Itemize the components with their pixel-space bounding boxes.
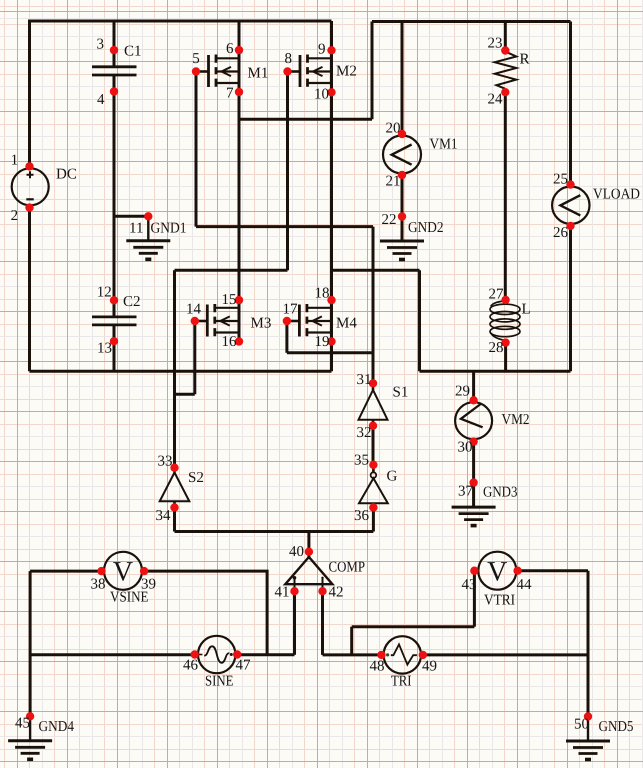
buffer S1 bbox=[359, 390, 388, 420]
svg-text:10: 10 bbox=[314, 86, 329, 102]
wire S2 feed vertical bbox=[173, 270, 176, 467]
wire right net riser bbox=[371, 22, 374, 120]
transistor M4 bbox=[287, 300, 332, 342]
wire R top from rail bbox=[504, 22, 507, 51]
svg-text:36: 36 bbox=[354, 508, 370, 524]
svg-text:9: 9 bbox=[318, 42, 326, 58]
wire COMP +in down bbox=[293, 591, 296, 655]
node pin 49 bbox=[419, 651, 427, 659]
node pin 36 bbox=[369, 503, 377, 511]
svg-text:5: 5 bbox=[192, 51, 200, 67]
node pin 26 bbox=[566, 222, 574, 230]
svg-text:38: 38 bbox=[91, 577, 106, 593]
wire C1 bottom to GND1 junction to C2 top bbox=[113, 75, 116, 317]
wire C1 top lead from rail bbox=[113, 21, 116, 67]
node pin 19 bbox=[327, 337, 335, 345]
svg-text:42: 42 bbox=[329, 585, 344, 601]
voltage source DC bbox=[12, 168, 49, 205]
node pin 35 bbox=[369, 461, 377, 469]
svg-text:12: 12 bbox=[97, 285, 112, 301]
wire VM1 top from rail bbox=[401, 22, 404, 135]
svg-text:19: 19 bbox=[315, 334, 330, 350]
wire M1 gate down to S1 feed bbox=[195, 72, 198, 227]
wire S1 to G link bbox=[372, 426, 375, 465]
svg-text:S2: S2 bbox=[188, 470, 204, 486]
svg-text:43: 43 bbox=[462, 577, 477, 593]
wire GND5 column bbox=[587, 571, 590, 717]
wire node B M2 source down through M4 to rail end bbox=[330, 82, 333, 371]
svg-text:GND5: GND5 bbox=[599, 719, 634, 735]
svg-text:DC: DC bbox=[56, 167, 77, 183]
svg-text:VM2: VM2 bbox=[502, 412, 530, 428]
node pin 41 bbox=[290, 587, 298, 595]
svg-text:46: 46 bbox=[183, 658, 199, 674]
node pin 17 bbox=[283, 317, 291, 325]
source TRI bbox=[384, 636, 421, 673]
ground GND2 bbox=[380, 217, 424, 260]
node pin 16 bbox=[235, 337, 243, 345]
svg-text:45: 45 bbox=[15, 716, 30, 732]
wire VSINE left to GND4 column bbox=[30, 570, 101, 573]
node pin 20 bbox=[398, 130, 406, 138]
svg-text:TRI: TRI bbox=[391, 674, 412, 690]
node pin 15 bbox=[235, 296, 243, 304]
node pin 38 bbox=[97, 567, 105, 575]
wire bottom rail bbox=[30, 370, 332, 373]
svg-text:C1: C1 bbox=[124, 44, 142, 60]
wire G output down bbox=[372, 508, 375, 532]
node pin 5 bbox=[192, 67, 200, 75]
ground GND1 bbox=[126, 216, 170, 259]
svg-text:29: 29 bbox=[455, 384, 470, 400]
svg-text:GND4: GND4 bbox=[39, 719, 75, 735]
transistor M1 bbox=[196, 51, 239, 93]
wire L bottom to bottom link bbox=[504, 343, 507, 372]
node pin 24 bbox=[501, 88, 509, 96]
svg-text:48: 48 bbox=[370, 659, 385, 675]
transistor M3 bbox=[195, 300, 239, 342]
svg-text:24: 24 bbox=[488, 92, 504, 108]
svg-text:34: 34 bbox=[156, 508, 172, 524]
wire R bottom to L top bbox=[504, 92, 507, 300]
wire VTRI tap horizontal bbox=[352, 625, 475, 628]
svg-text:16: 16 bbox=[222, 334, 238, 350]
wire VTRI right to GND5 bbox=[518, 569, 588, 572]
wire M2 drain from rail bbox=[330, 21, 333, 58]
svg-text:35: 35 bbox=[354, 453, 369, 469]
svg-text:VTRI: VTRI bbox=[484, 593, 515, 609]
svg-text:28: 28 bbox=[489, 340, 504, 356]
wire jog horizontal bbox=[175, 393, 195, 396]
svg-text:20: 20 bbox=[386, 121, 401, 137]
node pin 25 bbox=[566, 180, 574, 188]
wire VTRI left drop bbox=[473, 571, 476, 627]
resistor R bbox=[495, 52, 517, 89]
node pin 22 bbox=[398, 212, 406, 220]
svg-text:23: 23 bbox=[488, 36, 503, 52]
node pin 11 bbox=[144, 212, 152, 220]
svg-text:21: 21 bbox=[386, 173, 401, 189]
node pin 7 bbox=[235, 88, 243, 96]
wire VM2 top tap bbox=[472, 371, 475, 400]
wire M3 gate down to jog bbox=[193, 321, 196, 394]
node pin 2 bbox=[25, 203, 33, 211]
svg-text:GND3: GND3 bbox=[483, 485, 518, 501]
inductor L bbox=[490, 301, 520, 341]
svg-text:33: 33 bbox=[158, 454, 173, 470]
wire S2 output down bbox=[173, 508, 176, 532]
svg-text:M3: M3 bbox=[251, 316, 272, 332]
svg-text:R: R bbox=[520, 52, 530, 68]
svg-text:13: 13 bbox=[97, 341, 112, 357]
wire M2 gate down bbox=[286, 72, 289, 271]
node pin 47 bbox=[233, 650, 241, 658]
svg-text:14: 14 bbox=[186, 302, 202, 318]
wire GND1 link bbox=[114, 215, 148, 218]
node pin 50 bbox=[584, 712, 592, 720]
svg-text:32: 32 bbox=[357, 425, 372, 441]
svg-text:22: 22 bbox=[382, 212, 397, 228]
voltmeter VTRI bbox=[478, 552, 516, 590]
wire COMP output riser bbox=[307, 532, 310, 558]
wire VM2 bottom to GND3 bbox=[472, 442, 475, 507]
svg-text:GND1: GND1 bbox=[151, 221, 187, 237]
node pin 4 bbox=[110, 87, 118, 95]
svg-text:41: 41 bbox=[275, 585, 290, 601]
svg-text:COMP: COMP bbox=[329, 560, 366, 576]
wire VTRI tap drop bbox=[350, 627, 353, 655]
svg-text:S1: S1 bbox=[393, 385, 409, 401]
node pin 9 bbox=[327, 46, 335, 54]
node pin 3 bbox=[110, 46, 118, 54]
node pin 29 bbox=[469, 396, 477, 404]
wire VSINE right drop bbox=[144, 571, 267, 655]
wire gate-drive bus horizontal bbox=[175, 530, 374, 533]
svg-text:49: 49 bbox=[422, 659, 437, 675]
node pin 8 bbox=[283, 67, 291, 75]
svg-text:M4: M4 bbox=[336, 316, 357, 332]
svg-text:GND2: GND2 bbox=[408, 220, 444, 236]
node pin 30 bbox=[469, 437, 477, 445]
wire S1 feed horizontal from M1 gate bbox=[196, 225, 373, 228]
svg-text:SINE: SINE bbox=[205, 674, 234, 690]
svg-text:50: 50 bbox=[574, 717, 589, 733]
wire gate net left horizontal bbox=[175, 269, 288, 272]
wire M1 drain from rail bbox=[238, 21, 241, 58]
transistor M2 bbox=[288, 51, 332, 93]
buffer G bbox=[359, 472, 388, 503]
svg-text:44: 44 bbox=[517, 577, 533, 593]
svg-text:31: 31 bbox=[357, 372, 372, 388]
wire node B branch horizontal bbox=[332, 269, 420, 272]
wire VLOAD top from rail bbox=[569, 22, 572, 185]
wire top-right rail bbox=[372, 20, 571, 23]
svg-text:37: 37 bbox=[458, 484, 474, 500]
wire DC+ up bbox=[28, 20, 31, 167]
svg-text:18: 18 bbox=[315, 286, 330, 302]
node pin 44 bbox=[513, 567, 521, 575]
wire SINE right to COMP +in column bbox=[237, 653, 294, 656]
svg-text:2: 2 bbox=[11, 208, 19, 224]
svg-text:11: 11 bbox=[129, 221, 143, 237]
node pin 48 bbox=[377, 651, 385, 659]
wire S1 stubs bbox=[372, 383, 375, 425]
node pin 37 bbox=[469, 478, 477, 486]
svg-text:C2: C2 bbox=[123, 294, 141, 310]
node pin 46 bbox=[191, 650, 199, 658]
node pin 45 bbox=[26, 712, 34, 720]
wire S2 stubs bbox=[173, 468, 176, 508]
node pin 43 bbox=[470, 567, 478, 575]
svg-text:M1: M1 bbox=[248, 66, 269, 82]
node pin 27 bbox=[501, 296, 509, 304]
node pin 18 bbox=[327, 296, 335, 304]
svg-text:VSINE: VSINE bbox=[110, 590, 149, 606]
svg-text:V: V bbox=[113, 556, 133, 587]
wire top-left rail DC+ to M2 drain bbox=[30, 20, 332, 23]
node pin 13 bbox=[110, 337, 118, 345]
wire TRI right to GND5 column bbox=[423, 653, 588, 656]
node pin 28 bbox=[501, 338, 509, 346]
wire node B branch drop bbox=[418, 270, 421, 371]
node pin 31 bbox=[369, 379, 377, 387]
svg-text:25: 25 bbox=[553, 172, 568, 188]
capacitor C1 bbox=[92, 67, 137, 75]
node pin 1 bbox=[25, 162, 33, 170]
svg-text:VLOAD: VLOAD bbox=[593, 187, 640, 203]
node pin 40 bbox=[305, 548, 313, 556]
wire G stubs bbox=[372, 465, 375, 508]
op-amp COMP bbox=[285, 557, 332, 591]
wire COMP -in to TRI left bbox=[323, 653, 382, 656]
buffer S2 bbox=[160, 473, 190, 502]
wire M1 source down to node A / M3 drain bbox=[238, 82, 241, 308]
node pin 39 bbox=[140, 567, 148, 575]
ground GND5 bbox=[566, 717, 610, 760]
node pin 34 bbox=[170, 503, 178, 511]
voltmeter VM2 bbox=[455, 402, 492, 439]
svg-text:1: 1 bbox=[11, 153, 19, 169]
source SINE bbox=[198, 636, 235, 673]
svg-text:8: 8 bbox=[285, 51, 293, 67]
wire M4 gate down bbox=[285, 321, 288, 353]
svg-text:V: V bbox=[487, 556, 507, 587]
svg-text:L: L bbox=[522, 302, 531, 318]
node pin 6 bbox=[235, 46, 243, 54]
svg-text:47: 47 bbox=[236, 658, 252, 674]
svg-text:26: 26 bbox=[553, 225, 569, 241]
svg-text:VM1: VM1 bbox=[430, 137, 458, 153]
voltmeter VSINE bbox=[104, 552, 142, 590]
svg-text:27: 27 bbox=[489, 287, 505, 303]
node pin 33 bbox=[170, 464, 178, 472]
svg-text:3: 3 bbox=[97, 37, 105, 53]
ground GND3 bbox=[452, 483, 496, 526]
ground GND4 bbox=[8, 716, 52, 759]
wire bottom right link bbox=[420, 370, 571, 373]
node pin 21 bbox=[398, 171, 406, 179]
svg-text:6: 6 bbox=[226, 41, 234, 57]
svg-text:7: 7 bbox=[226, 85, 234, 101]
svg-text:G: G bbox=[387, 469, 398, 485]
voltmeter VLOAD bbox=[552, 187, 589, 224]
wire VLOAD bottom to bottom link bbox=[569, 226, 572, 371]
wire S1 feed drop to pin 31 bbox=[372, 227, 375, 384]
node pin 12 bbox=[110, 296, 118, 304]
node pin 23 bbox=[501, 46, 509, 54]
svg-text:4: 4 bbox=[97, 92, 105, 108]
wire COMP -in down bbox=[321, 591, 324, 655]
svg-text:40: 40 bbox=[289, 544, 304, 560]
svg-text:15: 15 bbox=[222, 292, 237, 308]
node pin 14 bbox=[191, 317, 199, 325]
node pin 32 bbox=[369, 422, 377, 430]
svg-text:M2: M2 bbox=[336, 64, 357, 80]
wire node A to right net horizontal bbox=[239, 118, 372, 121]
svg-text:30: 30 bbox=[458, 440, 473, 456]
svg-text:17: 17 bbox=[283, 302, 299, 318]
wire M4 source row bbox=[287, 351, 373, 354]
wire VM1 bottom to GND2 bbox=[401, 175, 404, 242]
wire C2 bottom to bottom rail bbox=[113, 325, 116, 371]
wire GND4 column bbox=[29, 571, 32, 716]
wire DC- down to bottom rail bbox=[28, 208, 31, 372]
capacitor C2 bbox=[92, 317, 137, 325]
voltmeter VM1 bbox=[383, 136, 421, 174]
node pin 42 bbox=[318, 587, 326, 595]
wire GND4 net to SINE left bbox=[30, 653, 195, 656]
node pin 10 bbox=[327, 88, 335, 96]
